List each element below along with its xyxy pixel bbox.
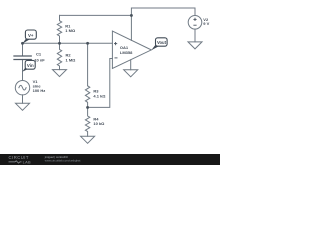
capacitor C1 plates [14,56,31,60]
V2 minus marker [193,24,196,26]
ground under R2 [53,70,67,77]
flag Vout box [156,38,168,46]
svg-text:1 MΩ: 1 MΩ [66,58,77,63]
watermark CircuitLab logo [9,155,32,164]
svg-text:10 kΩ: 10 kΩ [93,121,105,126]
flag V+ box [25,30,36,39]
resistor R1 [57,15,61,43]
svg-text:V+: V+ [28,33,34,38]
wire top rail left [60,14,132,16]
resistor R3 [85,86,89,108]
watermark bottom bar [0,154,220,165]
voltage source V1 circle [15,81,29,95]
wire op-amp negative pin [130,60,132,70]
svg-text:Vin: Vin [27,63,34,68]
ground under op-amp [124,70,138,77]
svg-text:4.1 kΩ: 4.1 kΩ [93,94,106,99]
svg-text:Vout: Vout [157,40,167,45]
wire op-amp V+ supply pin [130,15,132,40]
wire V1 to ground [22,95,24,103]
svg-text:1 MΩ: 1 MΩ [65,28,76,33]
wire V2 to ground [194,29,196,42]
V1 sine symbol [19,85,26,90]
svg-text:10 nF: 10 nF [34,58,45,63]
ground under V2 [188,42,202,49]
flag Vin leader [22,67,28,71]
flag Vin box [25,60,35,69]
voltage source V2 circle [188,15,202,29]
ground under R4 [81,136,95,143]
svg-text:LAB: LAB [23,160,31,165]
svg-text:www.circuitlab.com/czskghat: www.circuitlab.com/czskghat [45,158,81,162]
junction node at R3/R4 feedback tap [86,106,89,109]
op-amp OA1 triangle [112,31,151,69]
svg-text:100 Hz: 100 Hz [33,88,46,93]
wire bias node to op-amp + input [23,42,113,44]
junction node at R3 top / bias wire [86,42,89,45]
svg-text:9 V: 9 V [203,21,209,26]
wire C1 top lead [22,43,24,56]
wire R3 top drop [87,43,89,86]
svg-text:LM358: LM358 [120,50,133,55]
junction node at top rail / op-amp supply [130,14,133,17]
flag V+ leader [22,38,30,44]
junction node at R1/R2 divider [58,42,61,45]
resistor R2 [57,43,61,69]
junction node at C1 / V+ flag / bias wire [21,42,24,45]
svg-text:C1: C1 [36,52,42,57]
wire C1 bottom to V1 [22,60,24,81]
wire top rail right to V2 [131,8,195,16]
watermark credit text [44,155,81,162]
wire feedback minus input [88,59,113,108]
resistor R4 [85,107,89,136]
V2 plus marker [193,18,196,20]
ground under V1 [16,103,30,110]
flag Vout leader [151,45,159,51]
op-amp + input marker [114,18,197,58]
op-amp - input marker [115,57,118,59]
